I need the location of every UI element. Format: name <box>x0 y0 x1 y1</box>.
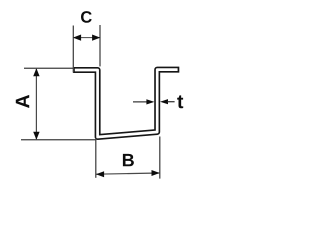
dimension B: right extension line <box>159 137 161 179</box>
dimension B: left arrowhead <box>96 171 104 177</box>
dimension t: left leader line <box>133 101 150 103</box>
dimension B: left extension line <box>95 138 97 178</box>
dimension t: right arrowhead (points left at wall) <box>160 99 168 104</box>
dimension A: vertical dimension line <box>35 69 37 139</box>
dimension t: right leader line <box>168 101 175 103</box>
dimension A: top extension line <box>24 67 73 69</box>
label C <box>81 11 92 23</box>
dimension B: right arrowhead <box>152 170 160 176</box>
dimension C: right extension line <box>99 25 101 66</box>
label B <box>123 154 134 166</box>
hat-channel profile outline (outer black stroke) <box>73 70 179 137</box>
label A (rotated) <box>16 95 29 108</box>
dimension t: left arrowhead (points right at wall) <box>146 99 154 104</box>
dimension C: left extension line <box>72 26 74 73</box>
dimension C: dimension line <box>74 37 100 39</box>
dimension A: lower arrowhead <box>33 132 39 140</box>
dimension B: dimension line <box>96 173 160 174</box>
dimension A: bottom extension line <box>21 139 96 141</box>
dimension A: upper arrowhead <box>33 68 39 76</box>
label t <box>177 95 183 108</box>
hat-channel profile inner white core (creates double-line wall look) <box>75 70 178 137</box>
dimension C: right arrowhead <box>92 35 100 41</box>
dimension C: left arrowhead <box>73 35 81 41</box>
